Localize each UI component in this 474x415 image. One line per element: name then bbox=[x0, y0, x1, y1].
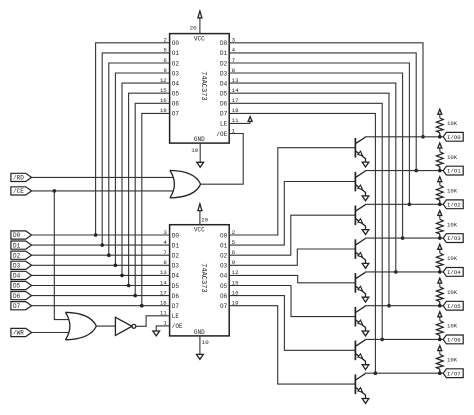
wire I/O3 line bbox=[365, 237, 443, 239]
svg-text:D5: D5 bbox=[13, 283, 21, 290]
svg-text:10K: 10K bbox=[447, 356, 458, 363]
power VCC arrow on R5 bbox=[438, 244, 442, 253]
svg-text:10K: 10K bbox=[447, 120, 458, 127]
svg-text:10K: 10K bbox=[447, 154, 458, 161]
wire U1 LE pin 11 to pull-up bbox=[229, 122, 250, 124]
svg-text:I/O1: I/O1 bbox=[447, 168, 461, 175]
svg-text:O5: O5 bbox=[220, 283, 228, 290]
ground symbol at Q8 emitter bbox=[362, 399, 369, 404]
junction R1 on I/O0 bbox=[438, 135, 442, 139]
svg-text:D4: D4 bbox=[220, 80, 228, 87]
latch U2 74AC373 body bbox=[170, 225, 230, 336]
svg-text:O3: O3 bbox=[172, 70, 180, 77]
wire D2 bus line to U2 pin bbox=[32, 254, 170, 256]
junction R4 on I/O3 bbox=[438, 236, 442, 240]
svg-text:I/O3: I/O3 bbox=[447, 235, 461, 242]
wire U2 O5 to Q6 base bbox=[229, 286, 355, 317]
svg-text:O4: O4 bbox=[172, 80, 180, 87]
svg-text:O7: O7 bbox=[172, 111, 180, 118]
resistor R2 10K bbox=[436, 152, 443, 171]
ground symbol at Q3 emitter bbox=[362, 230, 369, 235]
or-gate G2 bbox=[65, 312, 96, 340]
svg-text:D6: D6 bbox=[13, 293, 21, 300]
svg-text:D0: D0 bbox=[172, 232, 180, 239]
junction D0 vertical on I/O0 bbox=[421, 135, 425, 139]
junction D3 vertical on I/O3 bbox=[401, 236, 405, 240]
svg-text:O0: O0 bbox=[172, 40, 180, 47]
resistor R3 10K bbox=[436, 185, 443, 204]
junction U1 O1 on D1 bbox=[100, 243, 104, 247]
wire U1 O0 to D0 bus bbox=[96, 43, 170, 235]
net label I/O0 bbox=[443, 132, 463, 141]
junction R2 on I/O1 bbox=[438, 169, 442, 173]
wire D5 bus line to U2 pin bbox=[32, 285, 170, 287]
U2 pin numbers left (3,4,7,8,13,14,17,18,11,1) bbox=[160, 229, 167, 327]
wire U2 O7 to Q8 base bbox=[229, 306, 355, 384]
power VCC arrow U2 pin 20 bbox=[198, 204, 202, 225]
net label D0 bbox=[11, 231, 32, 239]
net label I/O7 bbox=[443, 369, 463, 378]
ground symbol at Q6 emitter bbox=[362, 331, 369, 336]
svg-text:O6: O6 bbox=[172, 101, 180, 108]
svg-text:I/O0: I/O0 bbox=[447, 134, 461, 141]
wire G2 output to inverter G3 bbox=[96, 325, 115, 327]
power VCC arrow U1 pin 20 bbox=[198, 11, 202, 34]
wire I/O1 line bbox=[365, 170, 443, 172]
svg-text:O7: O7 bbox=[220, 303, 228, 310]
wire G3 output to U2 LE pin 11 bbox=[136, 316, 170, 327]
svg-text:O1: O1 bbox=[172, 50, 180, 57]
svg-text:20: 20 bbox=[201, 217, 208, 224]
transistor Q4 bbox=[355, 239, 365, 264]
transistor Q7 bbox=[355, 340, 365, 365]
junction U1 O7 on D7 bbox=[140, 304, 144, 308]
ground symbol U1 pin 10 bbox=[197, 143, 204, 167]
svg-text:10K: 10K bbox=[447, 221, 458, 228]
wire I/O4 line bbox=[365, 271, 443, 273]
junction D2 vertical on I/O2 bbox=[408, 203, 412, 207]
wire /CE to OR gate G1 bbox=[32, 190, 173, 192]
ground symbol at Q1 emitter bbox=[362, 162, 369, 167]
wire D3 bus line to U2 pin bbox=[32, 264, 170, 266]
power VCC arrow on R8 bbox=[438, 346, 442, 355]
wire U1 O3 to D3 bus bbox=[115, 73, 169, 265]
svg-text:74AC373: 74AC373 bbox=[199, 71, 207, 100]
U1 pin numbers right (3,4,7,8,13,14,17,18,11,1) bbox=[232, 37, 239, 135]
junction R6 on I/O5 bbox=[438, 304, 442, 308]
wire D7 bus line to U2 pin bbox=[32, 305, 170, 307]
svg-text:D2: D2 bbox=[172, 253, 180, 260]
junction R8 on I/O7 bbox=[438, 371, 442, 375]
transistor Q3 bbox=[355, 205, 365, 230]
svg-text:O2: O2 bbox=[172, 60, 180, 67]
svg-text:/CE: /CE bbox=[13, 188, 24, 195]
junction D5 vertical on I/O5 bbox=[387, 304, 391, 308]
svg-text:D6: D6 bbox=[220, 101, 228, 108]
net label I/O4 bbox=[443, 268, 463, 277]
wire U2 O6 to Q7 base bbox=[229, 296, 355, 351]
wire U1 O2 to D2 bus bbox=[109, 63, 170, 255]
junction D7 vertical on I/O7 bbox=[374, 371, 378, 375]
junction U1 O3 on D3 bbox=[114, 264, 118, 268]
wire U2 O2 to Q3 base bbox=[229, 215, 355, 255]
svg-text:LE: LE bbox=[172, 313, 180, 320]
wire I/O2 line bbox=[365, 203, 443, 205]
svg-text:VCC: VCC bbox=[194, 227, 205, 234]
power VCC arrow on R1 bbox=[438, 109, 442, 118]
svg-text:O1: O1 bbox=[220, 242, 228, 249]
svg-text:/WR: /WR bbox=[13, 330, 24, 337]
wire I/O0 line bbox=[365, 136, 443, 138]
net label /WR bbox=[11, 328, 32, 336]
resistor R7 10K bbox=[436, 321, 443, 340]
junction R7 on I/O6 bbox=[438, 338, 442, 342]
svg-text:LE: LE bbox=[220, 121, 228, 128]
svg-text:10K: 10K bbox=[447, 188, 458, 195]
svg-text:I/O6: I/O6 bbox=[447, 337, 461, 344]
junction R5 on I/O4 bbox=[438, 270, 442, 274]
U1 pin numbers left (2,5,6,9,12,15,16,19) bbox=[160, 37, 167, 115]
transistor Q2 bbox=[355, 171, 365, 196]
svg-text:/OE: /OE bbox=[216, 131, 227, 138]
svg-text:D7: D7 bbox=[220, 111, 228, 118]
wire /RD to OR gate G1 bbox=[32, 176, 173, 178]
wire U1 D7 to I/O7 line bbox=[229, 113, 375, 373]
svg-text:O5: O5 bbox=[172, 91, 180, 98]
wire U1 O7 to D7 bus bbox=[142, 113, 170, 305]
svg-text:10K: 10K bbox=[447, 289, 458, 296]
svg-text:D0: D0 bbox=[220, 40, 228, 47]
power VCC arrow on R6 bbox=[438, 278, 442, 287]
svg-text:74AC373: 74AC373 bbox=[199, 263, 207, 292]
wire I/O6 line bbox=[365, 338, 443, 340]
svg-text:10: 10 bbox=[202, 339, 209, 346]
junction U1 O0 on D0 bbox=[94, 233, 98, 237]
net label D2 bbox=[11, 251, 32, 259]
svg-text:D7: D7 bbox=[13, 303, 21, 310]
junction D1 vertical on I/O1 bbox=[414, 169, 418, 173]
ground symbol at Q7 emitter bbox=[362, 365, 369, 370]
resistor R4 10K bbox=[436, 219, 443, 238]
svg-text:20: 20 bbox=[190, 25, 197, 32]
net label D1 bbox=[11, 241, 32, 249]
wire U1 D4 to I/O4 line bbox=[229, 83, 396, 272]
junction U1 O2 on D2 bbox=[107, 253, 111, 257]
svg-text:D4: D4 bbox=[13, 273, 21, 280]
inverter G3 bbox=[115, 317, 135, 335]
wire U1 O6 to D6 bus bbox=[135, 103, 169, 295]
net label D3 bbox=[11, 261, 32, 269]
junction D4 vertical on I/O4 bbox=[394, 270, 398, 274]
wire U1 D1 to I/O1 line bbox=[229, 53, 416, 171]
net label /CE bbox=[11, 187, 32, 195]
svg-text:O2: O2 bbox=[220, 253, 228, 260]
net label /RD bbox=[11, 173, 32, 181]
power VCC arrow on R7 bbox=[438, 312, 442, 321]
resistor R6 10K bbox=[436, 287, 443, 306]
svg-text:O3: O3 bbox=[220, 263, 228, 270]
net label I/O1 bbox=[443, 166, 463, 175]
junction U1 O5 on D5 bbox=[127, 284, 131, 288]
wire U1 D5 to I/O5 line bbox=[229, 93, 389, 306]
U2 pin numbers right (2,5,6,9,12,15,16,19) bbox=[232, 229, 239, 307]
wire D4 bus line to U2 pin bbox=[32, 274, 170, 276]
svg-text:D0: D0 bbox=[13, 232, 21, 239]
net label D4 bbox=[11, 271, 32, 279]
wire I/O5 line bbox=[365, 305, 443, 307]
svg-text:VCC: VCC bbox=[194, 35, 205, 42]
svg-text:D1: D1 bbox=[172, 242, 180, 249]
wire U1 O1 to D1 bus bbox=[102, 53, 169, 245]
svg-text:D1: D1 bbox=[220, 50, 228, 57]
resistor R1 10K bbox=[436, 118, 443, 137]
svg-text:D3: D3 bbox=[172, 263, 180, 270]
wire U1 D3 to I/O3 line bbox=[229, 73, 402, 238]
svg-text:D3: D3 bbox=[13, 263, 21, 270]
svg-text:O6: O6 bbox=[220, 293, 228, 300]
wire /CE branch down to OR gate G2 bbox=[54, 191, 68, 320]
net label I/O3 bbox=[443, 234, 463, 243]
junction R3 on I/O2 bbox=[438, 203, 442, 207]
net label I/O5 bbox=[443, 301, 463, 310]
net label D7 bbox=[11, 302, 32, 310]
svg-text:10K: 10K bbox=[447, 323, 458, 330]
wire U1 D2 to I/O2 line bbox=[229, 63, 409, 204]
net label D6 bbox=[11, 292, 32, 300]
wire D6 bus line to U2 pin bbox=[32, 295, 170, 297]
ground symbol at U2 /OE bbox=[153, 331, 160, 336]
svg-text:D6: D6 bbox=[172, 293, 180, 300]
transistor Q1 bbox=[355, 137, 365, 162]
wire U1 D6 to I/O6 line bbox=[229, 103, 382, 339]
svg-text:O4: O4 bbox=[220, 273, 228, 280]
svg-text:D2: D2 bbox=[13, 252, 21, 259]
wire D1 bus line to U2 pin bbox=[32, 244, 170, 246]
wire I/O7 line bbox=[365, 372, 443, 374]
ground symbol at Q5 emitter bbox=[362, 297, 369, 302]
net label I/O6 bbox=[443, 335, 463, 344]
svg-text:I/O4: I/O4 bbox=[447, 269, 461, 276]
wire D0 bus line to U2 pin bbox=[32, 234, 170, 236]
svg-text:I/O5: I/O5 bbox=[447, 303, 461, 310]
svg-text:D7: D7 bbox=[172, 303, 180, 310]
wire G1 output to U1 /OE pin 1 bbox=[201, 134, 244, 185]
latch U1 74AC373 body bbox=[170, 34, 230, 144]
ground symbol at Q2 emitter bbox=[362, 196, 369, 201]
power VCC arrow on R3 bbox=[438, 177, 442, 186]
svg-text:D5: D5 bbox=[220, 91, 228, 98]
ground symbol U2 pin 10 bbox=[197, 336, 204, 359]
svg-text:I/O7: I/O7 bbox=[447, 370, 461, 377]
svg-text:O0: O0 bbox=[220, 232, 228, 239]
svg-text:D4: D4 bbox=[172, 273, 180, 280]
svg-text:10K: 10K bbox=[447, 255, 458, 262]
wire U2 /OE pin 1 to ground bbox=[156, 326, 169, 331]
transistor Q5 bbox=[355, 272, 365, 297]
wire U2 O1 to Q2 base bbox=[229, 182, 355, 246]
net label D5 bbox=[11, 281, 32, 289]
svg-text:10: 10 bbox=[191, 147, 198, 154]
wire U1 O4 to D4 bus bbox=[122, 83, 170, 275]
power VCC arrow on R2 bbox=[438, 143, 442, 152]
svg-text:GND: GND bbox=[194, 136, 205, 143]
resistor R5 10K bbox=[436, 253, 443, 272]
wire U1 O5 to D5 bus bbox=[129, 93, 170, 285]
svg-text:/RD: /RD bbox=[13, 175, 24, 182]
svg-text:GND: GND bbox=[194, 329, 205, 336]
wire U1 D0 to I/O0 line bbox=[229, 43, 423, 137]
svg-text:I/O2: I/O2 bbox=[447, 201, 461, 208]
svg-text:D3: D3 bbox=[220, 70, 228, 77]
node /CE branch junction bbox=[53, 189, 57, 193]
resistor R8 10K bbox=[436, 354, 443, 373]
power VCC arrow on U1 LE bbox=[248, 117, 252, 124]
wire /WR to OR gate G2 bbox=[32, 332, 69, 334]
net label I/O2 bbox=[443, 200, 463, 209]
or-gate G1 bbox=[170, 170, 201, 198]
wire U2 O4 to Q5 base bbox=[229, 275, 355, 282]
power VCC arrow on R4 bbox=[438, 211, 442, 220]
transistor Q8 bbox=[355, 374, 365, 399]
ground symbol at Q4 emitter bbox=[362, 263, 369, 268]
wire U2 O0 to Q1 base bbox=[229, 148, 355, 235]
junction D6 vertical on I/O6 bbox=[380, 338, 384, 342]
svg-text:D5: D5 bbox=[172, 283, 180, 290]
transistor Q6 bbox=[355, 306, 365, 331]
svg-text:D1: D1 bbox=[13, 242, 21, 249]
svg-text:D2: D2 bbox=[220, 60, 228, 67]
junction U1 O4 on D4 bbox=[120, 274, 124, 278]
svg-text:/OE: /OE bbox=[172, 323, 183, 330]
junction U1 O6 on D6 bbox=[133, 294, 137, 298]
wire U2 O3 to Q4 base bbox=[229, 249, 355, 265]
